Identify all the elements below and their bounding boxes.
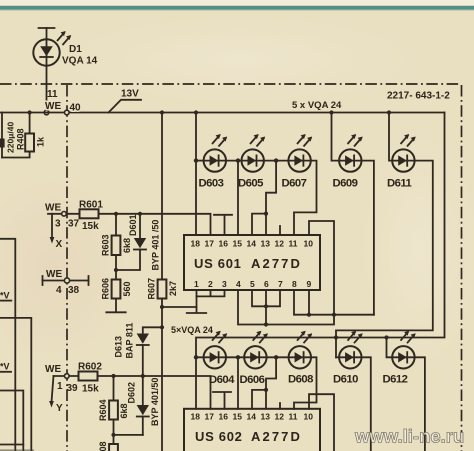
wire R607 to IC1 ground — [162, 306, 197, 308]
wire pin16 T stub — [224, 216, 226, 236]
svg-text:US 602: US 602 — [195, 429, 243, 444]
svg-text:12: 12 — [275, 412, 285, 422]
svg-text:10: 10 — [304, 412, 314, 422]
wire R408 bottom — [2, 152, 30, 158]
WE 4/38 jumper link — [43, 276, 89, 285]
resistor R608 (cut off) — [109, 444, 118, 451]
svg-text:A277D: A277D — [251, 256, 302, 271]
svg-text:2217- 643-1-2: 2217- 643-1-2 — [387, 91, 450, 102]
node R603/D601/R606 — [114, 268, 118, 272]
resistor R408 1k — [25, 134, 34, 152]
svg-text:13: 13 — [261, 239, 271, 249]
svg-text:6k8: 6k8 — [119, 403, 129, 418]
svg-text:15: 15 — [233, 412, 243, 422]
svg-text:D613: D613 — [114, 336, 124, 358]
svg-text:18: 18 — [191, 239, 201, 249]
wire IC2 pin10 loop down — [309, 394, 334, 451]
teal scan line at top — [0, 6, 474, 10]
wire pin12 stub — [279, 226, 281, 235]
node step split — [264, 212, 268, 216]
LED D610 — [336, 331, 363, 369]
svg-text:D603: D603 — [199, 178, 224, 190]
svg-text:R606: R606 — [100, 278, 110, 300]
LED D604 — [196, 331, 227, 369]
LED D608 — [289, 331, 313, 369]
node wrap2 crossing — [334, 335, 338, 339]
left cut wire L1 — [0, 239, 15, 451]
LED D1 terminal bar — [39, 27, 55, 29]
svg-text:D601: D601 — [128, 214, 138, 236]
resistor R607 2k7 — [158, 280, 167, 299]
svg-text:D604: D604 — [209, 374, 235, 386]
svg-text:15k: 15k — [82, 384, 99, 395]
node bus drop D611 — [387, 110, 391, 114]
svg-text:4: 4 — [56, 285, 62, 296]
wire to R604 — [113, 376, 115, 401]
diode D602 BYP401/50 — [142, 376, 144, 405]
node bus/R607 — [160, 110, 164, 114]
capacitor lower wire — [1, 148, 3, 158]
resistor R606 560 — [115, 270, 117, 280]
node bus/row1feed — [194, 110, 198, 114]
svg-text:10: 10 — [304, 239, 314, 249]
node R604/D602 bottom — [111, 433, 115, 437]
IC1 pins 8,9 to lower bus — [294, 290, 374, 315]
resistor R602 15k — [79, 372, 98, 381]
svg-text:8: 8 — [292, 279, 297, 289]
node pin6/pin4 line — [264, 322, 268, 326]
svg-text:www.li-ne.ru: www.li-ne.ru — [354, 426, 464, 447]
diode D601 BYP401/50 — [139, 214, 141, 238]
svg-text:14: 14 — [247, 412, 257, 422]
wire to R608 — [113, 435, 115, 444]
svg-text:16: 16 — [219, 412, 229, 422]
node row2 gap2 — [274, 355, 278, 359]
T bar on IC2 pin16 — [213, 391, 231, 393]
svg-text:D612: D612 — [383, 374, 408, 386]
node row1 gap1 / pin15 — [236, 158, 240, 162]
svg-text:11: 11 — [289, 412, 298, 422]
node D1/bus connector ring — [44, 110, 49, 115]
wire row2 segment B — [226, 356, 244, 358]
node R601/D601 — [138, 212, 142, 216]
WE boundary dash-dot vertical line — [66, 85, 68, 451]
wire gap1 to IC2 pin15 — [237, 357, 239, 409]
svg-text:15k: 15k — [82, 221, 99, 232]
wire to R603 — [115, 214, 117, 236]
svg-text:13: 13 — [261, 412, 271, 422]
frame dash-dot border top — [0, 83, 460, 85]
node row2 gap1 / pin15 — [236, 355, 240, 359]
wire split to IC2 pin13 — [265, 390, 267, 409]
left cut wire L4 — [0, 391, 23, 451]
wire D612 anode feed — [387, 338, 393, 358]
svg-text:D606: D606 — [240, 374, 265, 386]
svg-text:16: 16 — [219, 239, 229, 249]
LED D607 — [288, 134, 312, 172]
svg-text:X: X — [56, 239, 63, 250]
wire bus to D609 anode — [332, 113, 340, 161]
svg-text:38: 38 — [68, 285, 80, 296]
svg-text:7: 7 — [278, 279, 283, 289]
svg-text:R604: R604 — [98, 399, 108, 421]
wire bus to row1 start and IC1 pin18 — [195, 113, 197, 236]
node row1 start — [194, 158, 198, 162]
svg-text:WE: WE — [46, 269, 62, 280]
svg-text:17: 17 — [205, 239, 215, 249]
node wrap/D612 feed — [384, 335, 388, 339]
svg-text:R608: R608 — [98, 441, 108, 451]
svg-text:3: 3 — [222, 279, 227, 289]
resistor R601 15k — [80, 209, 99, 218]
LED D1 VQA14 — [33, 31, 71, 66]
wire R602 to IC2 pin17 — [98, 376, 211, 409]
IC1 pins 5,7 join — [252, 290, 280, 306]
svg-text:1: 1 — [194, 279, 199, 289]
node row1 gap2 — [274, 158, 278, 162]
wire D612 cathode down — [415, 357, 425, 451]
svg-text:17: 17 — [205, 412, 215, 422]
resistor R603 6k8 — [112, 236, 121, 256]
svg-text:5 x VQA 24: 5 x VQA 24 — [292, 100, 342, 111]
wire bus to D611 anode — [389, 113, 392, 161]
svg-text:5: 5 — [250, 279, 255, 289]
left cut wire L2 — [0, 318, 31, 451]
capacitor 220u/40 plates (cut off at edge) — [0, 139, 5, 148]
svg-text:*V: *V — [0, 291, 10, 301]
wire R604 bottom — [113, 420, 115, 435]
wire joining D602 bottom — [114, 434, 143, 436]
wire gap2 step to node — [266, 161, 276, 214]
signal X arrow — [51, 214, 53, 238]
node R607/D613 — [160, 325, 164, 329]
svg-text:2k7: 2k7 — [168, 281, 178, 296]
svg-text:37: 37 — [68, 219, 80, 230]
svg-text:1k: 1k — [36, 136, 46, 147]
node row2 start — [194, 355, 198, 359]
svg-text:40: 40 — [70, 103, 82, 114]
svg-text:BAP 811: BAP 811 — [125, 323, 135, 359]
resistor R607 2k7 line from bus — [161, 113, 163, 280]
IC US601 A277D — [184, 235, 320, 290]
svg-text:11: 11 — [47, 89, 58, 100]
svg-text:BYP 401/50: BYP 401/50 — [150, 378, 160, 426]
svg-text:2: 2 — [208, 279, 213, 289]
svg-text:R603: R603 — [100, 234, 110, 256]
svg-text:WE: WE — [45, 101, 61, 112]
wire IC2 pin16 T stub — [224, 393, 226, 409]
wire pin10 loop to lower bus — [309, 221, 334, 315]
wire row1 segment A — [196, 160, 204, 162]
svg-text:1: 1 — [57, 381, 63, 392]
IC1 pin4 wire to lower bus — [238, 290, 334, 325]
node step split row2 — [264, 388, 268, 392]
ground bar under R606 — [106, 311, 125, 313]
resistor R604 6k8 — [109, 401, 118, 420]
wire IC2 pin12 stub — [279, 403, 281, 409]
13V supply bus — [0, 112, 445, 114]
svg-text:R602: R602 — [78, 362, 102, 373]
wire bus to R408 — [29, 113, 31, 134]
svg-text:39: 39 — [67, 383, 79, 394]
svg-text:220μ/40: 220μ/40 — [6, 122, 16, 153]
svg-text:BYP 401 /50: BYP 401 /50 — [151, 220, 161, 271]
svg-text:R607: R607 — [146, 278, 156, 300]
svg-text:5×VQA 24: 5×VQA 24 — [171, 325, 213, 335]
LED D612 — [392, 331, 416, 369]
wire row2 segment C — [267, 356, 289, 358]
wire to D613 — [143, 327, 162, 333]
wire D611 cathode wrap to row2 D610 anode — [336, 161, 433, 358]
node R607/gnd link — [160, 305, 164, 309]
wire D607 cathode step to pin11 — [294, 161, 317, 235]
13V label leader — [109, 100, 142, 113]
connector ring WE3/37 — [62, 212, 67, 217]
wire R603 bottom — [115, 255, 117, 270]
svg-text:6k8: 6k8 — [122, 238, 132, 253]
wire R607 bottom long vertical — [161, 299, 163, 451]
svg-text:D605: D605 — [238, 178, 263, 190]
svg-text:D609: D609 — [333, 178, 358, 190]
ground bar IC1 — [187, 312, 206, 314]
wire D608 cathode step to IC2 pin11 — [294, 357, 317, 409]
diode D613 BAP811 — [137, 334, 149, 344]
wire D1 to bus — [46, 66, 48, 113]
svg-text:Y: Y — [56, 403, 63, 414]
node bus/R408 — [28, 110, 32, 114]
svg-text:13V: 13V — [121, 89, 139, 100]
svg-text:4: 4 — [236, 279, 241, 289]
svg-text:D1: D1 — [69, 44, 82, 55]
wire row1 segment B — [226, 160, 242, 162]
svg-text:D610: D610 — [333, 374, 358, 386]
svg-text:12: 12 — [275, 239, 285, 249]
wire D609 cathode to lower bus — [362, 161, 374, 315]
top white strip — [0, 0, 474, 6]
LED D603 — [204, 134, 228, 172]
svg-text:3: 3 — [55, 219, 61, 230]
svg-text:D602: D602 — [126, 382, 136, 404]
svg-text:WE: WE — [45, 364, 61, 375]
wire R601 to pin17 — [99, 214, 211, 235]
svg-text:6: 6 — [264, 279, 269, 289]
IC1 pins 2,3 join — [197, 290, 225, 296]
wire D1 top — [46, 28, 48, 39]
wire split to pin13 — [265, 214, 267, 235]
node pin10-loop / lower bus — [332, 313, 336, 317]
node pin6/bus5-7 — [264, 304, 268, 308]
svg-text:R601: R601 — [79, 200, 103, 211]
node R602/D602 — [141, 374, 145, 378]
IC1 pin1 to ground — [196, 290, 198, 312]
wire split to IC2 pin14 — [252, 390, 266, 409]
wire R606 to ground — [115, 299, 117, 312]
wire WE1 row — [54, 375, 79, 377]
T bar on pin16 — [214, 214, 232, 216]
wire row2 start to IC2 pin18 — [195, 357, 197, 409]
svg-text:9: 9 — [307, 279, 312, 289]
wire gap1 to pin15 — [237, 161, 239, 235]
svg-text:11: 11 — [289, 239, 298, 249]
IC1 pin6 drop — [265, 290, 267, 325]
node R601/R603 — [114, 212, 118, 216]
svg-text:WE: WE — [45, 203, 61, 214]
svg-text:*V: *V — [0, 362, 10, 372]
row2 feed line from bus wrap — [196, 113, 445, 358]
LED D605 — [242, 134, 266, 172]
svg-text:15: 15 — [233, 239, 243, 249]
frame dash-dot border right — [461, 85, 463, 451]
svg-text:VQA 14: VQA 14 — [62, 56, 98, 67]
svg-text:US 601: US 601 — [194, 256, 242, 271]
LED D606 — [244, 331, 268, 369]
wire split to pin14 — [252, 214, 266, 235]
svg-text:14: 14 — [247, 239, 257, 249]
wire WE3 row — [48, 213, 80, 215]
svg-text:D607: D607 — [282, 178, 307, 190]
connector ring WE/40 — [65, 110, 70, 115]
LED D611 — [392, 134, 416, 172]
electrolytic capacitor 220u/40 wire — [1, 113, 3, 139]
svg-text:D608: D608 — [288, 374, 313, 386]
svg-text:D611: D611 — [387, 178, 411, 190]
node R602/R604 — [111, 374, 115, 378]
IC US602 A277D — [184, 409, 320, 451]
node bus drop D609 — [329, 110, 333, 114]
LED D609 — [339, 134, 363, 172]
svg-text:R408: R408 — [15, 128, 25, 150]
wire row1 segment C — [264, 160, 288, 162]
left cut wire L3 — [0, 444, 23, 446]
svg-text:560: 560 — [122, 281, 132, 296]
wire D610 cathode down — [362, 357, 371, 451]
svg-text:18: 18 — [191, 412, 201, 422]
node pin9 — [307, 313, 311, 317]
wire gap2 step down — [266, 357, 276, 390]
connector ring WE1/39 — [65, 374, 70, 379]
svg-text:A277D: A277D — [251, 429, 302, 444]
scan smudge bottom left — [0, 449, 34, 451]
signal Y arrow — [52, 376, 54, 402]
